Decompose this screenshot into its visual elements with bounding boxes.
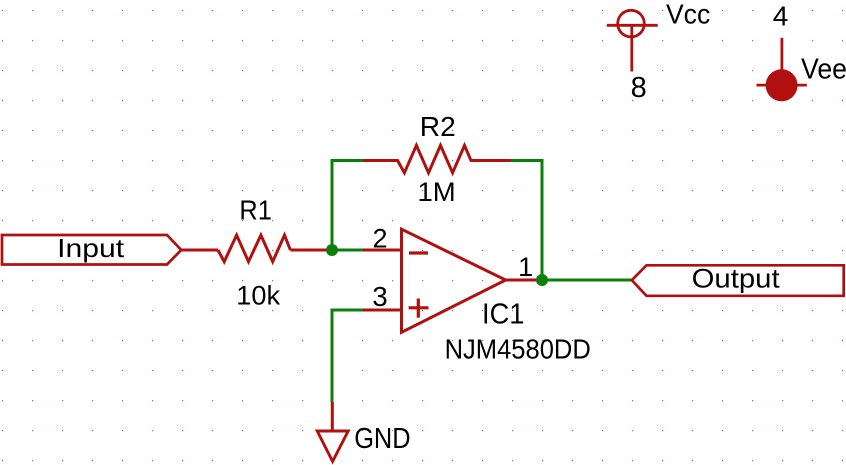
junction node B xyxy=(536,274,548,286)
wire node A to pin 2 xyxy=(332,249,363,252)
power flag Vee xyxy=(757,38,807,102)
svg-text:Output: Output xyxy=(692,264,781,294)
power flag Vcc xyxy=(607,10,658,71)
net flag Input xyxy=(2,233,181,264)
pin 3 stub xyxy=(363,309,402,312)
wire feedback top right xyxy=(511,159,544,162)
wire Input flag to R1 xyxy=(181,249,218,252)
resistor R1 xyxy=(218,235,290,262)
resistor R2 xyxy=(363,145,511,172)
svg-text:R1: R1 xyxy=(239,195,271,226)
pin 1 stub xyxy=(506,279,539,282)
svg-text:2: 2 xyxy=(372,224,387,254)
svg-text:8: 8 xyxy=(631,72,647,104)
svg-text:1: 1 xyxy=(518,252,533,282)
ground GND xyxy=(317,402,348,461)
wire R1 to node A xyxy=(290,249,332,252)
wire pin 3 to GND xyxy=(332,310,363,402)
svg-text:Vee: Vee xyxy=(801,54,846,86)
wire node B to Output flag xyxy=(538,279,631,282)
svg-text:IC1: IC1 xyxy=(482,299,524,331)
op-amp IC1 xyxy=(402,229,506,332)
svg-text:GND: GND xyxy=(354,423,410,455)
junction node A xyxy=(326,244,338,256)
wire node A up to feedback xyxy=(331,161,334,251)
svg-text:4: 4 xyxy=(773,1,789,32)
svg-text:10k: 10k xyxy=(236,280,280,310)
wire feedback top left xyxy=(331,159,364,162)
pin 2 stub xyxy=(363,249,402,252)
svg-text:1M: 1M xyxy=(418,176,456,207)
net flag Output xyxy=(632,264,844,296)
svg-text:R2: R2 xyxy=(420,111,456,142)
wire feedback down to node B xyxy=(541,161,544,281)
svg-text:Input: Input xyxy=(57,233,125,263)
svg-text:3: 3 xyxy=(372,281,387,312)
svg-text:NJM4580DD: NJM4580DD xyxy=(445,334,591,365)
svg-text:Vcc: Vcc xyxy=(666,0,710,30)
